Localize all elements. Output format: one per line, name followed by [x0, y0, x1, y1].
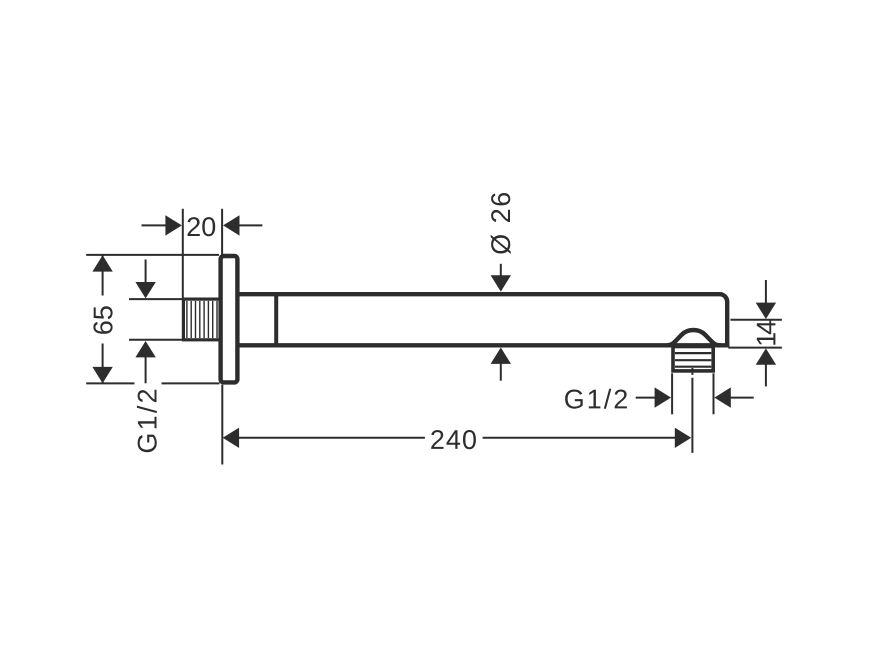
- label G1/2 wall thread (rotated): [137, 390, 157, 452]
- outlet dome at arm end: [667, 330, 721, 345]
- arrowhead dim 14 bottom (points up): [756, 348, 776, 364]
- outlet thread G1/2 box (hatched): [673, 347, 713, 371]
- dim 65: dimension line: [102, 255, 104, 383]
- joint line between cone and arm: [274, 294, 278, 345]
- dim 14: extension lines: [728, 320, 782, 348]
- arrowhead dim 20 right (points left): [223, 215, 239, 235]
- wall thread arrows stems: [145, 260, 147, 384]
- dim diameter 26 arrow stems: [500, 264, 502, 381]
- label 240: [431, 430, 476, 449]
- wall thread G1/2 box (hatched): [183, 299, 221, 340]
- arrowhead outlet G1/2 left (points right): [655, 387, 671, 407]
- label 65 (rotated): [93, 306, 112, 334]
- dim 20: dimension line tails: [142, 224, 263, 226]
- arrowhead dia 26 bottom (points up): [491, 348, 511, 364]
- shower arm bottom edge: [240, 343, 730, 347]
- label 14 (rotated): [757, 321, 776, 345]
- outlet centerline: [691, 368, 693, 375]
- arrowhead dim 20 left (points right): [165, 215, 181, 235]
- wall flange (escutcheon, side view): [221, 256, 238, 382]
- arrowhead dim 240 left (points left): [223, 428, 239, 448]
- outlet G1/2 arrow tails: [636, 397, 754, 399]
- dim 20: extension lines: [183, 209, 222, 298]
- label G1/2 outlet: [565, 389, 627, 409]
- wall thread extension lines: [129, 299, 183, 340]
- outlet G1/2 extension lines: [672, 373, 713, 414]
- arrowhead wall thread upper (points down): [135, 282, 155, 298]
- arrowhead dim 240 right (points right): [675, 428, 691, 448]
- arrowhead dia 26 top (points down): [491, 275, 511, 291]
- label 20: [188, 217, 216, 236]
- dim 240: extension line left: [221, 385, 223, 465]
- arrowhead dim 14 top (points down): [756, 303, 776, 319]
- arrowhead dim 65 top (points up): [92, 255, 112, 271]
- dim 14: arrow stems: [765, 280, 767, 386]
- shower arm body: top edge, rounded right corner, right edge: [239, 294, 728, 347]
- dim 65: extension lines: [86, 255, 219, 384]
- arrowhead outlet G1/2 right (points left): [714, 387, 730, 407]
- arrowhead wall thread lower (points up): [135, 341, 155, 357]
- arrowhead dim 65 bottom (points down): [92, 367, 112, 383]
- label diameter 26 (rotated): [491, 193, 511, 254]
- dim 240: dimension line: [239, 437, 676, 439]
